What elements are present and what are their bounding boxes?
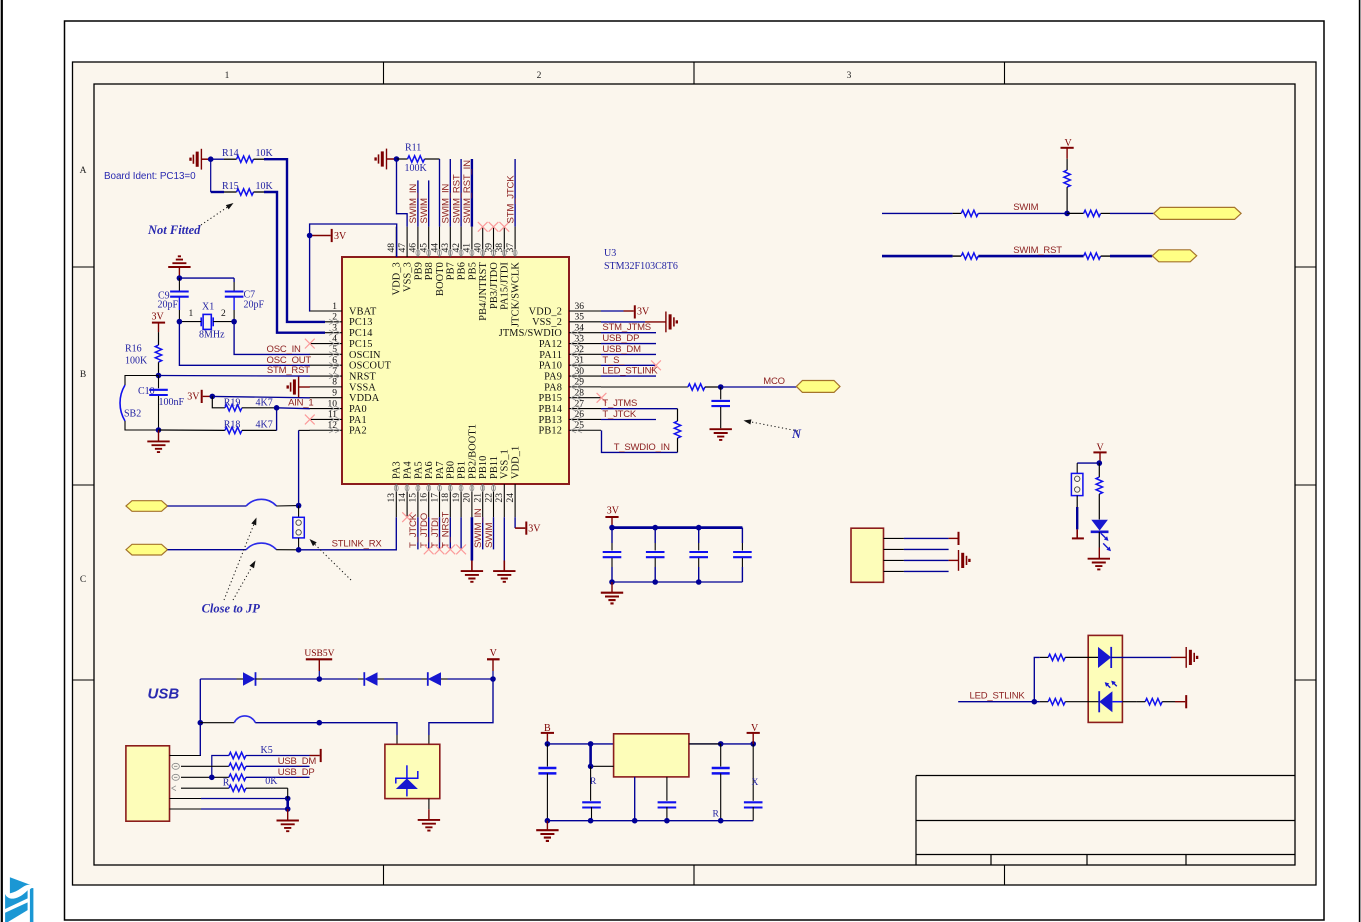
wire pin42 SWIM_RST — [460, 159, 462, 227]
svg-text:R: R — [713, 809, 720, 819]
svg-text:V: V — [1065, 138, 1073, 149]
svg-text:V: V — [490, 648, 498, 659]
connector pin2 wire — [884, 548, 949, 550]
power V above LED jumper — [1093, 442, 1106, 463]
svg-text:100nF: 100nF — [159, 397, 185, 408]
USB connector pin glyphs — [172, 763, 180, 790]
capacitor C7 20pF — [225, 290, 265, 322]
column label 2 — [537, 71, 542, 81]
svg-text:9: 9 — [332, 389, 337, 399]
resistor LED series — [1096, 463, 1102, 519]
svg-text:PB3/JTDO: PB3/JTDO — [489, 262, 500, 309]
ground below C10 — [147, 430, 169, 452]
USB gnd rows 5 and 6 — [170, 799, 288, 810]
node usb gnd row6 — [285, 806, 291, 812]
svg-text:3V: 3V — [152, 311, 165, 322]
svg-text:LED_STLINK: LED_STLINK — [602, 366, 658, 377]
net label LED_STLINK pin30 — [602, 366, 658, 377]
svg-text:T_SWDIO_IN: T_SWDIO_IN — [614, 442, 670, 453]
power 3V near R19 — [187, 390, 212, 403]
svg-text:24: 24 — [506, 493, 516, 503]
svg-text:JTCK/SWCLK: JTCK/SWCLK — [511, 262, 522, 327]
no-connect X pin4 PC15 — [305, 339, 315, 349]
net label SWIM pin22 — [484, 522, 495, 548]
svg-text:25: 25 — [575, 421, 585, 431]
svg-text:PA0: PA0 — [349, 404, 367, 415]
crystal X1 8MHz — [179, 302, 234, 341]
regulator body — [614, 734, 689, 777]
svg-text:47: 47 — [398, 243, 408, 253]
ground below pin23 — [493, 571, 515, 582]
svg-text:SWIM_RST: SWIM_RST — [451, 174, 462, 223]
node R14/R15 junction — [208, 156, 214, 162]
net label T_JTCK pin15 — [408, 513, 419, 548]
net label USB_DP row — [278, 767, 315, 778]
node usb gnd row5 — [285, 796, 291, 802]
wire OSC_OUT to pin6 — [179, 322, 309, 366]
net label SWIM_RST_IN pin41 — [462, 160, 473, 224]
net label SWIM_IN pin43 — [441, 184, 452, 224]
power 3V at VDD_1 pin24 — [515, 517, 541, 535]
U3 pin 29 PA8 — [544, 378, 601, 394]
wire pin43 SWIM_IN — [449, 159, 451, 227]
U3 pin 35 VSS_2 — [532, 313, 601, 329]
svg-text:SWIM: SWIM — [484, 522, 495, 548]
wire R15 to PC14 pin3 — [264, 192, 325, 333]
SWIM_RST row wire and resistors — [882, 253, 1152, 259]
node K5 USB_DP junction — [209, 775, 215, 781]
svg-text:B: B — [544, 723, 551, 734]
net label STM_RST — [267, 365, 310, 376]
svg-text:STM_JTMS: STM_JTMS — [602, 322, 651, 333]
U3 pin 1 VBAT — [310, 302, 378, 318]
power 3V above R16 — [152, 311, 166, 332]
svg-text:R15: R15 — [222, 181, 239, 192]
svg-text:VDD_3: VDD_3 — [392, 262, 403, 295]
page edge line left — [1, 0, 3, 922]
Close to JP annotation — [202, 518, 351, 616]
U3 pin 4 PC15 — [310, 334, 373, 350]
svg-text:SWIM: SWIM — [1013, 202, 1038, 213]
capacitor C10 100nF — [138, 376, 185, 431]
U3 pin 37 JTCK/SWCLK — [506, 227, 522, 327]
U3 pin 16 PA6 — [420, 461, 436, 517]
net label T_S — [602, 355, 625, 366]
inner drawing border — [94, 84, 1295, 865]
diode D1 — [200, 672, 319, 686]
U3 pin 42 PB6 — [452, 227, 468, 281]
svg-text:VDD_2: VDD_2 — [529, 306, 562, 317]
svg-text:OSCOUT: OSCOUT — [349, 361, 392, 372]
regulator bottom rail — [547, 820, 753, 822]
port SWIM — [1154, 207, 1241, 219]
LED indicator — [1091, 520, 1111, 559]
U3 pin 44 BOOT0 — [430, 227, 446, 296]
svg-text:PA3: PA3 — [392, 461, 403, 479]
svg-text:R16: R16 — [125, 343, 142, 354]
no-connect X pin17 end — [435, 545, 445, 555]
svg-text:2: 2 — [537, 71, 542, 81]
svg-text:4K7: 4K7 — [256, 397, 273, 408]
svg-text:PB12: PB12 — [539, 426, 563, 437]
U3 pin 22 PB11 — [484, 456, 500, 517]
net label AIN_1 — [288, 397, 313, 408]
node jumper top junction — [296, 503, 302, 509]
node USB5V junction — [317, 676, 323, 682]
net label SWIM_RST pin42 — [451, 174, 462, 223]
net label OSC_IN — [267, 344, 302, 355]
svg-text:USB5V: USB5V — [304, 649, 334, 659]
USB connector stub rows 1-4 — [170, 755, 172, 757]
IC U3 STM32F103C8T6 body — [342, 257, 569, 484]
svg-text:100K: 100K — [405, 163, 428, 174]
svg-text:T_JTDO: T_JTDO — [419, 513, 430, 548]
resistor USB_DM row — [181, 763, 310, 769]
svg-text:PB11: PB11 — [489, 456, 500, 479]
wire STM_JTMS pin34 — [601, 332, 656, 334]
resistor T_SWDIO_IN pulldown — [674, 409, 680, 453]
svg-text:Board Ident: PC13=0: Board Ident: PC13=0 — [104, 171, 196, 182]
net label LED_STLINK text — [970, 691, 1026, 702]
wire pin22 SWIM — [493, 517, 495, 549]
wire R11 to BOOT0 pin44 — [439, 159, 441, 227]
wire T_JTCK pin26 — [601, 419, 656, 421]
svg-text:3: 3 — [847, 71, 852, 81]
decoupling capacitor C101 — [603, 528, 622, 582]
wire 3V to VDDA pin9 — [212, 396, 309, 397]
svg-text:PC14: PC14 — [349, 328, 373, 339]
svg-text:V: V — [1097, 442, 1105, 453]
row label C — [80, 575, 86, 585]
power 3V at VDD_2 pin36 — [601, 305, 650, 318]
ground below pin20 — [461, 571, 483, 582]
svg-text:44: 44 — [430, 243, 440, 253]
svg-text:N: N — [791, 427, 802, 441]
no-connect X pin38 — [499, 222, 509, 232]
svg-text:18: 18 — [441, 493, 451, 503]
resistor R16 100K — [125, 332, 162, 375]
resistor LED row2 right — [1112, 695, 1186, 708]
svg-text:13: 13 — [387, 493, 397, 503]
svg-text:PB7: PB7 — [446, 262, 457, 280]
node SWIM junction — [1064, 211, 1070, 217]
jumper 2pin right block — [1071, 473, 1083, 495]
svg-text:NRST: NRST — [349, 371, 376, 382]
power 3V near pin48 — [310, 229, 347, 242]
U3 pin 43 PB7 — [441, 227, 457, 281]
node reg bottom dots — [545, 818, 724, 824]
svg-text:STM_RST: STM_RST — [267, 365, 310, 376]
svg-text:USB_DP: USB_DP — [278, 767, 315, 778]
U3 pin 3 PC14 — [310, 323, 373, 339]
USB connector body — [126, 746, 170, 821]
solder bridge SB2 — [120, 376, 158, 431]
power V above SWIM — [1061, 138, 1074, 159]
wire V to zener right pin — [429, 679, 493, 744]
svg-text:42: 42 — [452, 243, 462, 253]
resistor on PA8 MCO net — [601, 384, 721, 390]
no-connect X pin31 end — [651, 360, 661, 370]
net label T_JTCK — [602, 409, 637, 420]
node 3V VDDA junction — [210, 394, 216, 400]
svg-text:SWIM_RST: SWIM_RST — [1013, 245, 1062, 256]
svg-text:VDDA: VDDA — [349, 393, 380, 404]
wire R14 to PC13 pin2 — [264, 159, 325, 322]
svg-text:SWIM_IN: SWIM_IN — [441, 184, 452, 224]
node V LED junction — [1097, 460, 1103, 466]
net label STM_JTCK pin37 — [505, 175, 516, 224]
ST logo — [5, 877, 33, 922]
svg-text:R: R — [223, 778, 230, 789]
svg-text:PB15: PB15 — [539, 393, 563, 404]
wire pin46 SWIM_IN — [417, 180, 419, 226]
svg-text:T_JTCK: T_JTCK — [602, 409, 637, 420]
wire T_JTMS pin27 — [601, 408, 678, 410]
row label A — [80, 166, 87, 176]
svg-text:USB_DM: USB_DM — [278, 756, 317, 767]
svg-text:33: 33 — [575, 334, 585, 344]
svg-text:USB_DM: USB_DM — [602, 344, 641, 355]
svg-text:PB5: PB5 — [467, 262, 478, 280]
decoupling capacitor C102 — [646, 528, 665, 582]
diode D3 — [428, 672, 493, 686]
U3 pin 12 PA2 — [310, 421, 367, 437]
node R11 junction — [394, 156, 400, 162]
ground sideways at VSS_2 pin35 — [601, 312, 677, 333]
net label SWIM — [1013, 202, 1038, 213]
resistor R19 4K7 — [212, 396, 276, 411]
U3 pin 46 PB9 — [409, 227, 425, 281]
net label USB_DM — [602, 344, 641, 355]
net label T_SWDIO_IN — [614, 442, 670, 453]
svg-text:35: 35 — [575, 313, 585, 323]
border column ticks — [384, 62, 1005, 885]
wire reg enable branch — [591, 744, 614, 766]
svg-text:STLINK_RX: STLINK_RX — [332, 539, 383, 550]
svg-text:PB0: PB0 — [446, 461, 457, 479]
decoupling capacitor C104 — [733, 528, 752, 582]
node reg enable junction — [588, 764, 594, 770]
U3 pin 8 VSSA — [310, 378, 377, 394]
U3 pin 36 VDD_2 — [529, 302, 601, 318]
U3 pin 40 PB4/JNTRST — [474, 227, 490, 321]
row label B — [80, 370, 86, 380]
svg-text:14: 14 — [398, 493, 408, 503]
net label SWIM pin45 — [419, 198, 430, 224]
jumper JP (2 pin) — [293, 506, 305, 550]
svg-text:PA5: PA5 — [413, 461, 424, 479]
ground for R14 — [191, 149, 211, 170]
svg-text:PA1: PA1 — [349, 415, 367, 426]
svg-text:8MHz: 8MHz — [199, 330, 225, 341]
capacitor V output — [712, 744, 730, 821]
no-connect X pin18 end — [445, 545, 455, 555]
port STLINK RX (left bottom) — [126, 544, 168, 555]
zener protection box — [385, 744, 440, 798]
ground LED row1 — [1186, 647, 1197, 668]
wire LED_STLINK pin30 — [601, 375, 656, 377]
net label T_JTMS — [602, 398, 637, 409]
svg-text:T_JTDI: T_JTDI — [430, 518, 441, 548]
svg-text:22: 22 — [484, 493, 494, 503]
svg-text:36: 36 — [575, 302, 585, 312]
resistor USB_DP row — [181, 774, 310, 780]
Not Fitted annotation — [147, 203, 234, 237]
U3 pin 19 PB1 — [452, 461, 468, 517]
svg-text:A: A — [80, 166, 87, 176]
U3 pin 23 VSS_1 — [495, 449, 511, 517]
node V junction — [490, 676, 496, 682]
wire port1 to jumper with hop — [168, 499, 299, 506]
U3 pin 11 PA1 — [310, 410, 367, 426]
svg-text:1: 1 — [332, 302, 337, 312]
svg-text:46: 46 — [409, 243, 419, 253]
U3 pin 21 PB10 — [474, 456, 490, 518]
no-connect X pin16 end — [424, 545, 434, 555]
wire T_S pin31 — [601, 364, 656, 366]
port MCO — [796, 381, 840, 393]
U3 pin 14 PA4 — [398, 461, 414, 517]
svg-text:VSS_1: VSS_1 — [500, 449, 511, 479]
svg-text:U3: U3 — [604, 248, 616, 259]
svg-text:USB_DP: USB_DP — [602, 333, 639, 344]
U3 pin 17 PA7 — [430, 461, 446, 517]
svg-text:SWIM_IN: SWIM_IN — [473, 508, 484, 548]
svg-text:BOOT0: BOOT0 — [435, 262, 446, 296]
U3 pin 33 PA12 — [539, 334, 601, 350]
svg-text:T_S_: T_S_ — [602, 355, 625, 366]
resistor R15 10K — [211, 181, 274, 195]
power 3V cap bank — [605, 505, 619, 527]
diode D2 — [319, 672, 428, 686]
wire pin16 T_JTDO — [428, 517, 430, 549]
svg-text:8: 8 — [332, 378, 337, 388]
wire usb gnd vertical — [287, 788, 289, 820]
net label SWIM_IN pin46 — [408, 184, 419, 224]
U3 pin 9 VDDA — [310, 389, 380, 405]
svg-text:X1: X1 — [202, 302, 214, 313]
wire USB_DM pin32 — [601, 353, 656, 355]
net label T_NRST pin18 — [441, 512, 452, 548]
U3 designator — [604, 248, 678, 272]
connector pin3 wire to ground — [884, 550, 970, 571]
svg-text:VSS_3: VSS_3 — [403, 262, 414, 292]
border row ticks — [73, 267, 1317, 680]
svg-text:19: 19 — [452, 493, 462, 503]
no-connect X pin14 — [402, 512, 412, 522]
wire pin45 SWIM — [428, 180, 430, 226]
svg-text:PC15: PC15 — [349, 339, 373, 350]
U3 pin 10 PA0 — [310, 399, 367, 415]
resistor V to SWIM — [1064, 159, 1070, 214]
svg-text:VSS_2: VSS_2 — [532, 317, 562, 328]
svg-text:SWIM_IN: SWIM_IN — [408, 184, 419, 224]
decoupling capacitor C103 — [689, 528, 708, 582]
capacitor on MCO net — [711, 387, 730, 428]
node NRST junction — [156, 373, 162, 379]
U3 pin 13 PA3 — [387, 461, 403, 517]
svg-text:20pF: 20pF — [158, 299, 179, 310]
svg-text:45: 45 — [420, 243, 430, 253]
wire STLINK_RX to pin13 — [299, 517, 397, 550]
wire pin20 BOOT1 to ground — [471, 517, 474, 571]
ground LED — [1088, 559, 1110, 570]
svg-text:PB1: PB1 — [457, 461, 468, 479]
svg-text:3V: 3V — [334, 231, 347, 242]
U3 pin 28 PB15 — [539, 389, 602, 405]
net label STM_JTMS — [602, 322, 651, 333]
svg-text:0K: 0K — [265, 776, 278, 787]
port SWIM_RST — [1152, 250, 1196, 262]
svg-text:SWIM_RST_IN: SWIM_RST_IN — [462, 160, 473, 224]
U3 pin 48 VDD_3 — [387, 227, 403, 296]
svg-text:MCO: MCO — [763, 376, 785, 387]
svg-text:VDD_1: VDD_1 — [511, 446, 522, 479]
U3 pin 26 PB13 — [539, 410, 602, 426]
wire R15 left vertical — [210, 159, 212, 192]
node 3V junction — [307, 233, 313, 239]
svg-text:3V: 3V — [187, 392, 200, 403]
capacitor R below enable — [582, 766, 601, 820]
U3 pin 20 PB2/BOOT1 — [463, 424, 479, 517]
node LED_STLINK junction — [1032, 699, 1038, 705]
svg-text:K5: K5 — [261, 745, 273, 756]
resistor R18 4K7 — [159, 420, 277, 434]
ground sideways at VSSA pin8 — [288, 377, 310, 398]
svg-text:29: 29 — [575, 378, 585, 388]
svg-text:VBAT: VBAT — [349, 306, 377, 317]
svg-text:STM_JTCK: STM_JTCK — [505, 175, 516, 224]
svg-text:B: B — [80, 370, 86, 380]
no-connect X pin40 — [478, 222, 488, 232]
wire LED row1 to ground — [1111, 656, 1186, 658]
no-connect X pin28 — [597, 393, 607, 403]
SWIM row wire and resistors — [882, 210, 1154, 216]
svg-text:PC13: PC13 — [349, 317, 373, 328]
svg-text:4K7: 4K7 — [256, 420, 273, 431]
net label MCO — [763, 376, 785, 387]
ground cap bank — [601, 582, 623, 603]
svg-text:PB13: PB13 — [539, 415, 563, 426]
node crystal pin2 — [231, 319, 237, 325]
svg-text:1: 1 — [189, 309, 194, 319]
svg-text:32: 32 — [575, 345, 585, 355]
wire AIN_1 to PA0 pin10 — [277, 407, 310, 410]
svg-text:10K: 10K — [256, 181, 274, 192]
U3 pin 31 PA10 — [539, 356, 601, 372]
svg-text:40: 40 — [474, 243, 484, 253]
wire pin41 SWIM_RST_IN — [471, 159, 473, 227]
svg-text:16: 16 — [420, 493, 430, 503]
svg-text:PB2/BOOT1: PB2/BOOT1 — [467, 424, 478, 479]
node shield mid junction — [317, 720, 323, 726]
svg-text:2: 2 — [221, 309, 226, 319]
U3 pin 7 NRST — [310, 367, 377, 383]
wire 3V to VDD_3 pin48 — [310, 224, 397, 257]
wire pin18 T_NRST — [449, 517, 451, 549]
node crystal pin1 — [177, 319, 183, 325]
svg-text:R14: R14 — [222, 148, 239, 159]
column label 1 — [225, 71, 230, 81]
U3 pin 38 PA15/JTDI — [495, 227, 511, 310]
wire R18 up to AIN_1 — [276, 408, 278, 431]
wire V to jumper — [1077, 463, 1099, 473]
svg-text:R19: R19 — [224, 397, 241, 408]
U3 pin 47 VSS_3 — [398, 227, 414, 292]
U3 pin 32 PA11 — [539, 345, 601, 361]
svg-text:PA7: PA7 — [435, 461, 446, 479]
power B — [541, 723, 554, 744]
